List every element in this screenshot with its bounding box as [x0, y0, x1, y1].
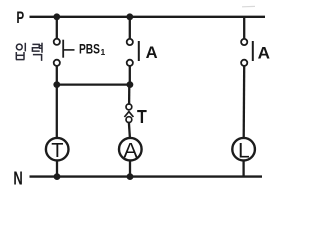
svg-text:A: A	[123, 139, 138, 163]
svg-text:PBS: PBS	[79, 41, 100, 57]
svg-text:T: T	[137, 106, 147, 127]
svg-text:A: A	[258, 43, 270, 62]
svg-text:1: 1	[101, 47, 106, 57]
svg-text:P: P	[16, 8, 24, 27]
svg-text:A: A	[146, 43, 158, 62]
svg-text:N: N	[13, 167, 22, 188]
svg-text:T: T	[51, 140, 63, 162]
svg-text:L: L	[238, 140, 250, 163]
